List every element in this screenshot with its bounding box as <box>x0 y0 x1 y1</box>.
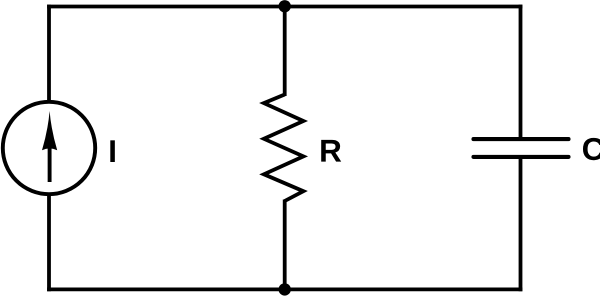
wire middle branch lower <box>283 200 287 290</box>
wire left branch upper <box>47 5 51 103</box>
wire right branch lower <box>519 157 523 291</box>
wire right branch upper <box>519 5 523 140</box>
current source I <box>3 102 95 194</box>
node junction dot top <box>279 0 291 12</box>
capacitor C bottom plate <box>474 155 569 159</box>
wire top rail <box>47 5 522 9</box>
resistor R <box>264 95 304 202</box>
wire middle branch upper <box>283 6 287 96</box>
capacitor C top plate <box>474 137 569 141</box>
label I <box>110 140 115 162</box>
wire bottom rail <box>47 287 522 291</box>
node junction dot bottom <box>279 283 291 295</box>
label R <box>321 140 341 162</box>
wire left branch lower <box>47 193 51 291</box>
label C <box>583 138 600 160</box>
current source arrow <box>42 111 57 182</box>
